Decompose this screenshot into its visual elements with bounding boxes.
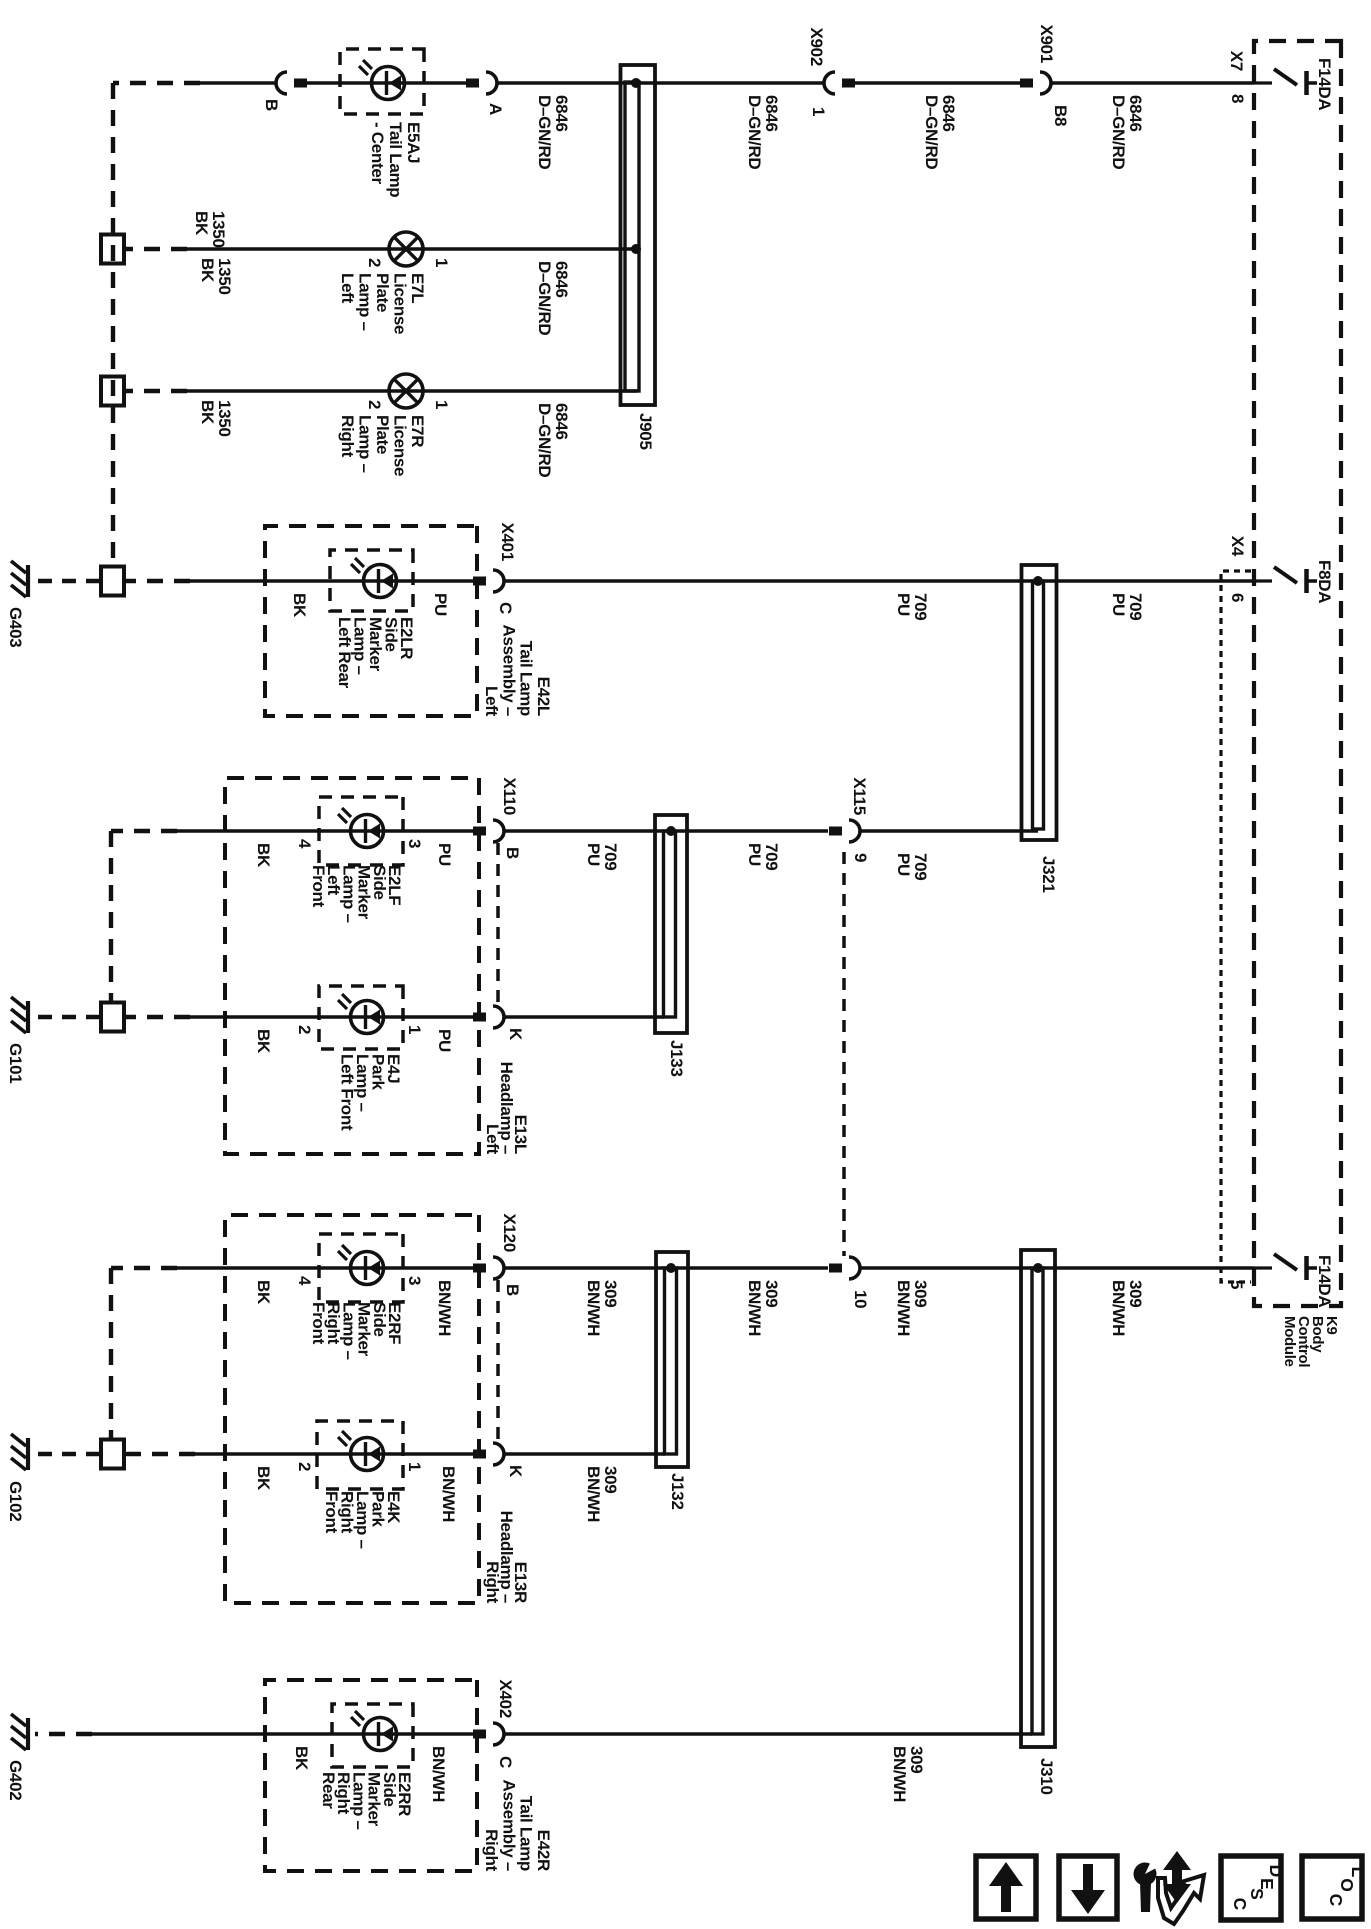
svg-text:1: 1 bbox=[405, 1462, 424, 1471]
dashed ground wire column 5 bbox=[111, 829, 177, 833]
dashed box E13R Headlamp Right bbox=[225, 1215, 479, 1603]
svg-text:1: 1 bbox=[405, 1025, 424, 1034]
svg-text:License: License bbox=[391, 273, 410, 334]
connector X120 K bbox=[473, 1443, 525, 1478]
svg-text:BK: BK bbox=[254, 1466, 273, 1491]
connector X110 K bbox=[473, 1006, 525, 1041]
wire 6846 D-GN/RD column E5AJ upper bbox=[1051, 81, 1254, 85]
svg-text:PU: PU bbox=[894, 853, 913, 876]
svg-text:3: 3 bbox=[405, 839, 424, 848]
label E13R Headlamp - Right bbox=[483, 1511, 530, 1604]
label E5AJ Tail Lamp - Center bbox=[368, 122, 423, 197]
junction dot J321 bbox=[1033, 576, 1043, 586]
wire from connector A to tail lamp bbox=[307, 81, 466, 85]
svg-text:F14DA: F14DA bbox=[1315, 58, 1334, 110]
ground G402 bbox=[6, 1714, 28, 1800]
svg-text:F14DA: F14DA bbox=[1315, 1255, 1334, 1307]
svg-text:PU: PU bbox=[435, 1029, 454, 1052]
pin X4-6 labels bbox=[1228, 536, 1247, 602]
icon button DESC bbox=[1221, 1856, 1286, 1920]
svg-text:BN/WH: BN/WH bbox=[439, 1466, 458, 1522]
svg-text:C: C bbox=[1230, 1898, 1250, 1911]
svg-text:2: 2 bbox=[365, 258, 384, 267]
svg-text:PU: PU bbox=[745, 843, 764, 866]
svg-text:E5AJ: E5AJ bbox=[404, 122, 423, 163]
wire 309 column E4K from J132 bbox=[504, 1452, 665, 1456]
lamp E2LF Side Marker Lamp - Left Front bbox=[338, 808, 384, 848]
svg-text:Plate: Plate bbox=[373, 415, 392, 454]
dashed box E2LF bbox=[319, 797, 403, 865]
svg-text:Tail Lamp: Tail Lamp bbox=[517, 641, 536, 716]
svg-text:BK: BK bbox=[254, 1280, 273, 1305]
connector A of E5AJ bbox=[466, 72, 505, 115]
wire 309 column E2RR from J310 bbox=[504, 1732, 1032, 1736]
svg-text:BK: BK bbox=[254, 843, 273, 868]
dashed tie line connector X110 bbox=[496, 843, 500, 1006]
svg-text:J132: J132 bbox=[668, 1473, 687, 1510]
dashed box E42L Tail Lamp Assembly Left bbox=[265, 526, 477, 716]
svg-text:BN/WH: BN/WH bbox=[584, 1466, 603, 1522]
dashed tie line connector X115 bbox=[842, 852, 846, 1256]
svg-text:D–GN/RD: D–GN/RD bbox=[535, 403, 554, 477]
label E4J Park Lamp - Left Front bbox=[338, 1054, 404, 1131]
svg-text:G402: G402 bbox=[6, 1760, 25, 1800]
svg-text:Left Rear: Left Rear bbox=[335, 617, 354, 689]
svg-text:Right: Right bbox=[482, 1829, 501, 1872]
lamp E5AJ Tail Lamp - Center bbox=[359, 60, 405, 100]
svg-text:Left: Left bbox=[338, 273, 357, 304]
svg-text:Left Front: Left Front bbox=[338, 1054, 357, 1131]
svg-text:2: 2 bbox=[295, 1025, 314, 1034]
icon wrench and routing arrows bbox=[1134, 1851, 1205, 1924]
svg-text:8: 8 bbox=[1228, 94, 1247, 103]
svg-text:9: 9 bbox=[851, 853, 870, 862]
svg-text:BN/WH: BN/WH bbox=[890, 1746, 909, 1802]
svg-text:5: 5 bbox=[1227, 1280, 1246, 1289]
connector X901 B8 bbox=[1020, 24, 1070, 126]
wire 309 between X115 and J132 bbox=[504, 1266, 828, 1270]
connector X902 pin 1 bbox=[807, 27, 855, 116]
svg-text:Plate: Plate bbox=[373, 273, 392, 312]
svg-text:F8DA: F8DA bbox=[1315, 560, 1334, 603]
dashed box E4J bbox=[319, 986, 403, 1049]
lamp E2RR Side Marker Lamp - Right Rear bbox=[351, 1711, 397, 1751]
dashed drop to G403 bbox=[31, 579, 100, 583]
lamp E7L License Plate Lamp - Left bbox=[389, 232, 423, 266]
junction dot J905 column2 bbox=[631, 244, 641, 254]
svg-text:4: 4 bbox=[295, 1276, 314, 1286]
svg-text:Module: Module bbox=[1281, 1316, 1298, 1367]
label E2RR Side Marker Lamp - Right Rear bbox=[319, 1772, 414, 1830]
svg-text:G403: G403 bbox=[6, 607, 25, 647]
connector X115 pin 9 bbox=[829, 777, 870, 862]
svg-text:J321: J321 bbox=[1039, 856, 1058, 893]
svg-text:X4: X4 bbox=[1228, 536, 1247, 557]
wire from X110-B to E2LF lamp bbox=[177, 829, 473, 833]
module K9 Body Control Module dashed outline bbox=[1254, 41, 1341, 1306]
svg-text:C: C bbox=[496, 1756, 515, 1768]
svg-text:10: 10 bbox=[851, 1290, 870, 1308]
label 1350 BK column 1 bbox=[192, 211, 228, 248]
svg-text:D–GN/RD: D–GN/RD bbox=[922, 95, 941, 169]
svg-text:License: License bbox=[391, 415, 410, 476]
svg-text:X902: X902 bbox=[807, 27, 826, 66]
wire from X401 to E2LR lamp bbox=[190, 579, 473, 583]
svg-text:BK: BK bbox=[198, 400, 217, 425]
svg-text:Front: Front bbox=[309, 865, 328, 908]
svg-text:PU: PU bbox=[435, 843, 454, 866]
svg-text:2: 2 bbox=[365, 400, 384, 409]
ground splice square G403 bbox=[101, 567, 124, 596]
svg-text:X110: X110 bbox=[500, 777, 519, 815]
svg-text:2: 2 bbox=[295, 1462, 314, 1471]
svg-text:BN/WH: BN/WH bbox=[745, 1280, 764, 1336]
fuse F8DA bbox=[1254, 560, 1334, 603]
svg-text:D: D bbox=[1266, 1865, 1286, 1878]
dashed box E2LR bbox=[330, 550, 413, 611]
svg-text:J905: J905 bbox=[636, 413, 655, 450]
svg-text:Tail Lamp: Tail Lamp bbox=[517, 1796, 536, 1871]
svg-text:PU: PU bbox=[1109, 593, 1128, 616]
dashed ground bus to G403 bbox=[111, 83, 115, 566]
svg-text:Lamp –: Lamp – bbox=[356, 273, 375, 331]
connector X4 dotted boundary inside BCM bbox=[1221, 571, 1251, 1282]
svg-text:X401: X401 bbox=[498, 522, 517, 561]
dashed drop to G101 bbox=[31, 1015, 100, 1019]
svg-text:X901: X901 bbox=[1037, 24, 1056, 63]
dashed box E42R Tail Lamp Assembly Right bbox=[265, 1680, 477, 1871]
lamp E4J Park Lamp - Left Front bbox=[338, 994, 384, 1034]
ground splice square column 2 bbox=[101, 235, 124, 264]
svg-text:E42R: E42R bbox=[534, 1830, 553, 1871]
wire 709 column E4J from J133 bbox=[504, 1015, 664, 1019]
svg-text:BN/WH: BN/WH bbox=[894, 1280, 913, 1336]
svg-text:Tail Lamp: Tail Lamp bbox=[386, 122, 405, 197]
lamp E7R License Plate Lamp - Right bbox=[389, 374, 423, 408]
dashed ground wire column 6 bbox=[125, 1015, 190, 1019]
svg-text:Front: Front bbox=[322, 1491, 341, 1534]
fuse F14DA bbox=[1254, 1254, 1334, 1307]
wire 6846 column E7L bbox=[187, 247, 637, 251]
lamp E2RF Side Marker Lamp - Right Front bbox=[338, 1245, 384, 1285]
svg-text:D–GN/RD: D–GN/RD bbox=[1109, 95, 1128, 169]
label E42L Tail Lamp Assembly - Left bbox=[482, 625, 553, 717]
junction dot J310 bbox=[1033, 1263, 1043, 1273]
svg-text:BK: BK bbox=[254, 1029, 273, 1054]
svg-text:B8: B8 bbox=[1051, 105, 1070, 126]
dashed ground wire column 2 bbox=[125, 247, 187, 251]
dashed ground wire column 7 bbox=[111, 1266, 177, 1270]
label E42R Tail Lamp Assembly - Right bbox=[482, 1780, 553, 1872]
dashed tie line connector X120 bbox=[496, 1280, 500, 1443]
icon button scroll-up bbox=[976, 1856, 1036, 1919]
wire 6846 between X902 and connector A bbox=[497, 81, 824, 85]
splice J133 bbox=[655, 815, 687, 1033]
connector X401 C bbox=[473, 522, 517, 614]
icon button scroll-down bbox=[1059, 1856, 1117, 1919]
wire 709 PU column E2LR upper bbox=[504, 579, 1254, 583]
svg-text:D–GN/RD: D–GN/RD bbox=[745, 95, 764, 169]
svg-text:Lamp –: Lamp – bbox=[356, 415, 375, 473]
label E2LR Side Marker Lamp - Left Rear bbox=[335, 617, 416, 689]
dashed ground wire column 9 bbox=[35, 1732, 92, 1736]
connector X115 pin 10 bbox=[829, 1257, 870, 1308]
svg-text:X402: X402 bbox=[496, 1679, 515, 1718]
svg-text:B: B bbox=[503, 847, 522, 859]
label E2RF Side Marker Lamp - Right Front bbox=[309, 1302, 404, 1360]
ground splice square G101 bbox=[101, 1003, 124, 1032]
svg-text:1: 1 bbox=[432, 258, 451, 267]
svg-text:J133: J133 bbox=[667, 1040, 686, 1077]
connector X110 B bbox=[473, 777, 522, 859]
svg-text:D–GN/RD: D–GN/RD bbox=[535, 261, 554, 335]
svg-text:BN/WH: BN/WH bbox=[435, 1280, 454, 1336]
dashed box E5AJ bbox=[340, 49, 424, 114]
connector X402 C bbox=[473, 1679, 515, 1768]
junction dot J133 bbox=[666, 826, 676, 836]
wire 709 column E2LF from J321 bbox=[860, 829, 1038, 833]
label E7L License Plate Lamp - Left bbox=[338, 273, 427, 334]
splice pack J905 bbox=[621, 65, 656, 405]
svg-text:A: A bbox=[486, 103, 505, 115]
label E7R License Plate Lamp - Right bbox=[338, 415, 427, 476]
ground G102 bbox=[6, 1434, 28, 1521]
pin X7-8 labels bbox=[1227, 51, 1247, 103]
label 1350 BK column 2 bbox=[198, 258, 234, 295]
junction dot J132 bbox=[666, 1263, 676, 1273]
svg-text:1: 1 bbox=[432, 400, 451, 409]
svg-text:G102: G102 bbox=[6, 1481, 25, 1521]
dashed box E13L Headlamp Left bbox=[225, 778, 479, 1154]
svg-text:BN/WH: BN/WH bbox=[429, 1746, 448, 1802]
svg-text:BK: BK bbox=[290, 593, 309, 618]
svg-text:D–GN/RD: D–GN/RD bbox=[535, 95, 554, 169]
svg-text:K: K bbox=[506, 1465, 525, 1478]
fuse F14DA bbox=[1254, 58, 1334, 110]
dashed ground bus to G102 bbox=[109, 1268, 113, 1441]
svg-text:X115: X115 bbox=[850, 777, 869, 815]
svg-text:BK: BK bbox=[192, 211, 211, 236]
dashed box E2RF bbox=[319, 1234, 403, 1302]
svg-text:4: 4 bbox=[295, 839, 314, 849]
svg-text:BN/WH: BN/WH bbox=[584, 1280, 603, 1336]
junction dot J905 column1 bbox=[631, 78, 641, 88]
dashed box E2RR bbox=[332, 1704, 413, 1767]
dashed ground wire column 4 bbox=[125, 579, 190, 583]
svg-text:E42L: E42L bbox=[534, 677, 553, 716]
svg-text:- Center: - Center bbox=[368, 122, 387, 185]
svg-text:E7L: E7L bbox=[408, 273, 427, 303]
splice J132 bbox=[656, 1252, 688, 1467]
dashed box E4K bbox=[317, 1421, 403, 1489]
svg-text:Rear: Rear bbox=[319, 1772, 338, 1809]
dashed drop to G102 bbox=[31, 1452, 100, 1456]
svg-text:B: B bbox=[503, 1284, 522, 1296]
svg-text:Front: Front bbox=[309, 1302, 328, 1345]
splice J321 bbox=[1022, 565, 1057, 840]
label E13L Headlamp - Left bbox=[483, 1062, 530, 1155]
svg-text:Assembly –: Assembly – bbox=[499, 1780, 518, 1872]
wire from X402 to E2RR lamp bbox=[92, 1732, 473, 1736]
svg-text:BK: BK bbox=[198, 258, 217, 283]
icon button LOC bbox=[1302, 1856, 1368, 1919]
svg-text:PU: PU bbox=[431, 593, 450, 616]
wire from X110-K to E4J lamp bbox=[190, 1015, 473, 1019]
label K9 Body Control Module bbox=[1281, 1316, 1340, 1367]
splice J310 bbox=[1021, 1250, 1055, 1747]
svg-text:Right: Right bbox=[338, 415, 357, 458]
wire 6846 column E7R bbox=[187, 389, 637, 393]
svg-text:C: C bbox=[1326, 1894, 1346, 1907]
lamp E2LR Side Marker Lamp - Left Rear bbox=[351, 558, 397, 598]
connector B of E5AJ bbox=[262, 72, 307, 111]
label E2LF Side Marker Lamp - Left Front bbox=[309, 865, 404, 923]
ground G101 bbox=[6, 997, 28, 1083]
svg-text:G101: G101 bbox=[6, 1043, 25, 1083]
svg-text:X120: X120 bbox=[500, 1213, 519, 1252]
svg-text:PU: PU bbox=[894, 593, 913, 616]
svg-text:Left: Left bbox=[483, 1124, 502, 1155]
svg-text:L: L bbox=[1348, 1867, 1368, 1878]
ground splice square column 3 bbox=[101, 377, 124, 406]
wire from X120-B to E2RF lamp bbox=[177, 1266, 473, 1270]
svg-text:Left: Left bbox=[482, 686, 501, 717]
label 1350 BK column 3 bbox=[198, 400, 234, 437]
wire 709 between X115 and J133 bbox=[504, 829, 828, 833]
dashed ground wire column 8 bbox=[125, 1452, 195, 1456]
svg-text:BN/WH: BN/WH bbox=[1109, 1280, 1128, 1336]
svg-text:Right: Right bbox=[483, 1561, 502, 1604]
svg-text:E7R: E7R bbox=[408, 415, 427, 447]
connector X120 B bbox=[473, 1213, 522, 1296]
wire 309 BN/WH column E2RF upper bbox=[860, 1266, 1254, 1270]
label E4K Park Lamp - Right Front bbox=[322, 1491, 403, 1549]
dashed ground wire column 3 bbox=[125, 389, 187, 393]
svg-text:PU: PU bbox=[584, 843, 603, 866]
svg-text:K: K bbox=[506, 1028, 525, 1041]
dashed ground wire column 1 bbox=[113, 81, 200, 85]
ground splice square G102 bbox=[101, 1440, 124, 1469]
svg-text:C: C bbox=[496, 602, 515, 614]
svg-text:6: 6 bbox=[1228, 593, 1247, 602]
svg-text:O: O bbox=[1337, 1878, 1357, 1892]
svg-text:J310: J310 bbox=[1037, 1758, 1056, 1795]
svg-text:3: 3 bbox=[405, 1276, 424, 1285]
wire from X120-K to E4K lamp bbox=[195, 1452, 473, 1456]
wire 6846 between X901 and X902 bbox=[855, 81, 1020, 85]
svg-text:1: 1 bbox=[809, 107, 828, 116]
ground G403 bbox=[6, 561, 28, 647]
svg-text:X7: X7 bbox=[1227, 51, 1246, 71]
dashed ground bus to G101 bbox=[109, 831, 113, 1004]
svg-text:Assembly –: Assembly – bbox=[499, 625, 518, 717]
lamp E4K Park Lamp - Right Front bbox=[338, 1431, 384, 1471]
wire 1350 BK below connector B bbox=[200, 81, 276, 85]
svg-text:BK: BK bbox=[292, 1746, 311, 1771]
svg-text:B: B bbox=[262, 99, 281, 111]
